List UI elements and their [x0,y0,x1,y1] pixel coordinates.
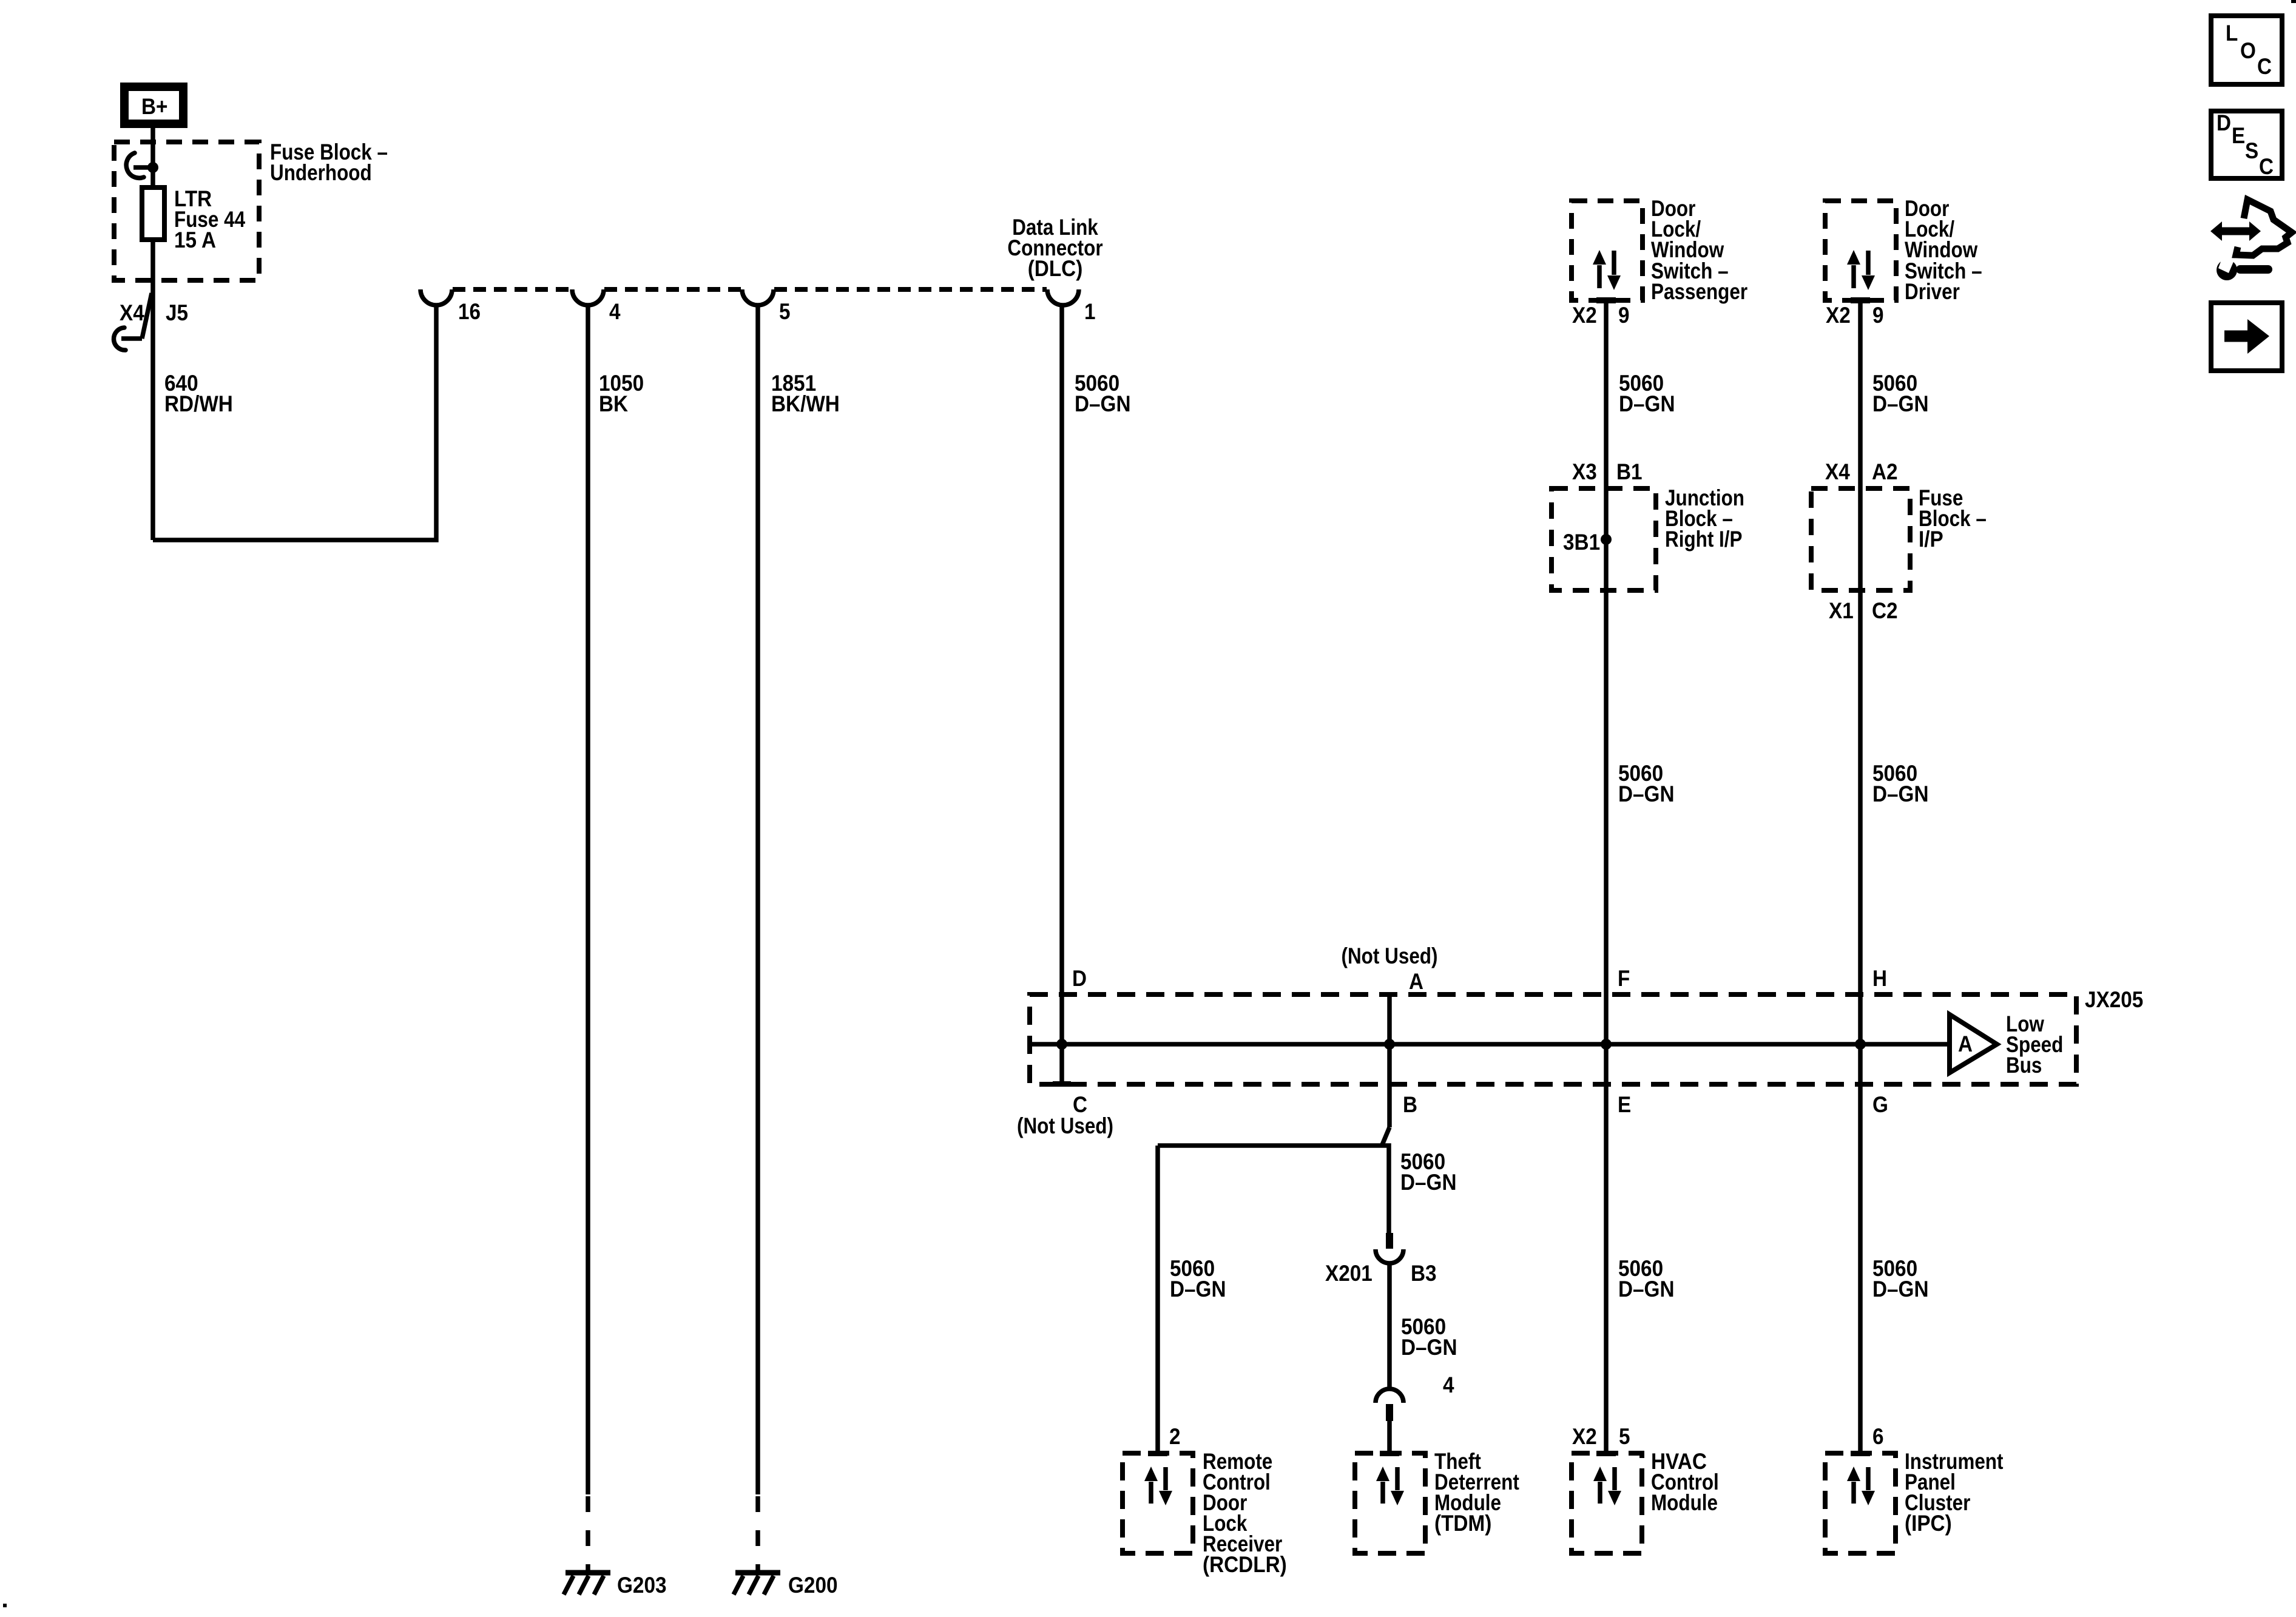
svg-text:D–GN: D–GN [1170,1277,1226,1301]
HVAC T-bar [1596,1451,1616,1456]
svg-text:D–GN: D–GN [1872,391,1929,416]
svg-text:X4: X4 [120,300,144,325]
page mark dot [3,1604,7,1607]
svg-text:L: L [2226,21,2238,46]
svg-text:1: 1 [1084,299,1096,324]
DLC pin 1 terminal cup [1047,289,1079,305]
page mark top right [2291,0,2296,3]
svg-text:B3: B3 [1411,1261,1437,1286]
junction dot D [1056,1039,1067,1050]
svg-text:C2: C2 [1872,598,1898,623]
svg-text:E: E [2232,123,2245,148]
svg-text:X1: X1 [1829,598,1854,623]
TDM box [1355,1453,1425,1553]
connector X4/J5 pigtail symbol [113,293,152,350]
wire branch to RCDLR [1155,1146,1160,1451]
battery feed B+ [124,87,183,124]
svg-text:Passenger: Passenger [1651,279,1747,304]
diagnostic icon connector outline [2236,200,2292,255]
junction block pin labels X3 B1 [1572,459,1643,484]
svg-text:X4: X4 [1825,459,1850,484]
junction block label [1665,485,1744,552]
svg-text:5: 5 [779,299,791,324]
svg-text:X2: X2 [1826,303,1851,328]
DLC pin 5 terminal cup [742,289,774,305]
svg-text:B1: B1 [1616,459,1643,484]
TDM connector cap [1376,1389,1403,1403]
HVAC label [1651,1449,1719,1515]
DLC pin 16 terminal cup [420,289,452,305]
wire pin1 down to splice pack pin D [1059,304,1064,1084]
door lock/window switch passenger box [1572,201,1643,303]
svg-text:(IPC): (IPC) [1905,1511,1952,1536]
svg-text:D–GN: D–GN [1619,391,1675,416]
svg-text:D: D [1072,966,1087,991]
svg-text:6: 6 [1872,1424,1884,1449]
svg-text:B: B [1403,1092,1417,1117]
svg-text:X2: X2 [1572,1424,1597,1449]
svg-text:(DLC): (DLC) [1028,256,1083,281]
IPC T-bar [1851,1451,1870,1456]
svg-text:9: 9 [1618,303,1630,328]
junction dot F [1601,1039,1612,1050]
svg-text:E: E [1618,1092,1631,1117]
svg-text:(Not Used): (Not Used) [1342,944,1438,968]
wire G to IPC [1858,1084,1863,1451]
door lock/window switch passenger label [1651,196,1747,304]
svg-text:H: H [1872,966,1887,991]
svg-text:16: 16 [458,299,481,324]
svg-text:(TDM): (TDM) [1434,1511,1491,1536]
wire label 5060 D-GN passenger lower [1618,761,1675,806]
fuse LTR Fuse 44 15A [142,187,164,240]
svg-text:15 A: 15 A [174,228,216,252]
wire driver switch to fuse block IP [1858,300,1863,1084]
svg-text:4: 4 [1443,1372,1454,1397]
wire label 5060 D-GN driver upper [1872,371,1929,416]
TDM T-bar [1380,1451,1399,1456]
TDM connector male stub [1386,1404,1393,1421]
svg-text:D: D [2217,110,2231,135]
svg-text:D–GN: D–GN [1618,781,1675,806]
LOC icon box [2211,16,2282,84]
svg-text:I/P: I/P [1919,527,1943,552]
wire B with jog to RCDLR branch [1158,1044,1389,1235]
svg-text:O: O [2240,38,2256,63]
HVAC box [1572,1453,1642,1553]
passenger pin labels X2 9 [1572,303,1630,328]
svg-text:A: A [1409,969,1423,994]
low speed bus line [1030,1042,1950,1047]
node A label [1342,944,1438,994]
wire label 5060 D-GN HVAC [1618,1256,1675,1301]
svg-text:JX205: JX205 [2085,987,2143,1012]
svg-text:D–GN: D–GN [1401,1335,1457,1360]
svg-text:Driver: Driver [1905,279,1960,304]
svg-text:BK/WH: BK/WH [771,391,840,416]
junction dot A/B [1384,1039,1395,1050]
svg-text:D–GN: D–GN [1075,391,1131,416]
ground G200 [734,1573,838,1598]
wire A to bus [1387,994,1392,1044]
ground G203 [564,1573,667,1598]
fuse block label [270,140,388,185]
svg-text:G200: G200 [788,1573,838,1598]
RCDLR T-bar [1148,1451,1167,1456]
wire pin4 to G203 [586,304,590,1494]
svg-text:G: G [1872,1092,1888,1117]
wire into TDM [1387,1421,1392,1451]
svg-text:D–GN: D–GN [1618,1277,1675,1301]
svg-text:D–GN: D–GN [1400,1170,1457,1195]
wire X201 to TDM connector [1387,1262,1392,1389]
fuse block IP label [1919,485,1987,552]
HVAC pin labels X2 5 [1572,1424,1630,1449]
svg-text:Right I/P: Right I/P [1665,527,1743,552]
svg-text:G203: G203 [617,1573,667,1598]
svg-text:C: C [2259,154,2274,179]
driver pin labels X2 9 [1826,303,1884,328]
TDM label [1434,1449,1519,1536]
wire to DLC pin 16 [153,304,436,540]
inline connector X201 cup [1376,1249,1403,1263]
junction dot H [1855,1039,1866,1050]
wire label 5060 D-GN TDM upper [1400,1149,1457,1195]
low speed bus label [2006,1011,2063,1078]
svg-text:Underhood: Underhood [270,160,372,185]
wire pin5 to G200 [755,304,760,1494]
svg-text:9: 9 [1872,303,1884,328]
svg-text:4: 4 [609,299,621,324]
wire label 1050 BK [599,371,644,416]
wire label 640 RD/WH [164,371,233,416]
IPC label [1905,1449,2004,1536]
DLC dashed connector line [453,287,1047,292]
DESC icon box [2211,110,2282,179]
wire label 5060 D-GN (DLC) [1075,371,1131,416]
svg-text:2: 2 [1169,1424,1181,1449]
door lock/window switch driver box [1825,201,1896,303]
fuse block IP box [1811,488,1910,590]
svg-text:S: S [2245,138,2258,163]
junction dot at fuse feed [147,162,158,173]
wire label 5060 D-GN TDM lower [1401,1314,1457,1360]
svg-text:X3: X3 [1572,459,1597,484]
wire label 5060 D-GN RCDLR [1170,1256,1226,1301]
svg-text:B+: B+ [141,94,168,119]
node C label [1017,1092,1113,1138]
splice pack JX205 box [1030,994,2076,1084]
wire label 5060 D-GN IPC [1872,1256,1929,1301]
wire passenger switch to junction block [1604,300,1609,1084]
svg-text:D–GN: D–GN [1872,1277,1929,1301]
wire B+ to fuse and down [150,128,155,540]
inline connector X201 male stub [1386,1233,1393,1249]
diagnostic icon wrench [2217,257,2268,280]
svg-text:X2: X2 [1572,303,1597,328]
svg-text:F: F [1618,966,1630,991]
IPC box [1825,1453,1896,1553]
svg-text:(RCDLR): (RCDLR) [1203,1552,1287,1577]
wire label 5060 D-GN passenger upper [1619,371,1675,416]
svg-text:Bus: Bus [2006,1053,2042,1078]
svg-text:A2: A2 [1872,459,1898,484]
fuse block IP pin labels X4 A2 [1825,459,1898,484]
fuse block underhood box [114,142,259,280]
svg-text:3B1: 3B1 [1563,530,1600,555]
DLC pin 4 terminal cup [572,289,604,305]
svg-text:Module: Module [1651,1490,1718,1515]
svg-text:J5: J5 [166,300,188,325]
svg-text:5: 5 [1619,1424,1630,1449]
svg-text:X201: X201 [1325,1261,1373,1286]
terminal hook inside fuse block [126,153,153,178]
svg-text:BK: BK [599,391,628,416]
diagnostic icon double arrow [2210,221,2261,241]
DLC label [1007,215,1102,281]
svg-text:C: C [2257,54,2272,79]
X201 B3 labels [1325,1261,1437,1286]
door lock/window switch driver label [1905,196,1982,304]
wire label 1851 BK/WH [771,371,840,416]
svg-text:D–GN: D–GN [1872,781,1929,806]
RCDLR label [1203,1449,1287,1577]
svg-text:RD/WH: RD/WH [164,391,233,416]
wire E to HVAC [1604,1084,1609,1451]
bus output triangle A [1950,1014,1997,1073]
junction block right I/P box [1551,488,1656,590]
fuse block IP pin labels X1 C2 [1829,598,1898,623]
svg-text:A: A [1958,1031,1973,1056]
svg-text:(Not Used): (Not Used) [1017,1113,1113,1138]
next-page arrow icon box [2211,303,2282,371]
wire label 5060 D-GN driver lower [1872,761,1929,806]
connector X4 J5 labels [120,300,188,325]
RCDLR box [1123,1453,1193,1553]
splice 3B1 [1563,530,1612,555]
pin C stub T-bar [1053,1081,1071,1087]
